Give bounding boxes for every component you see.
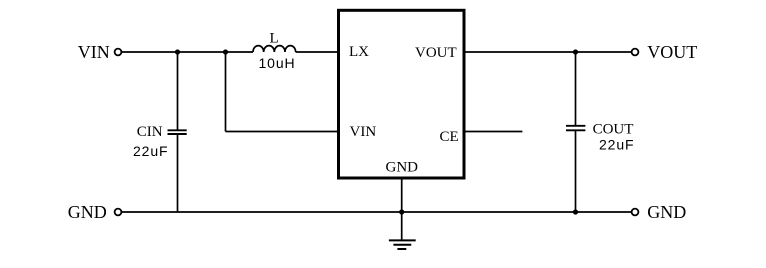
wire IC VIN branch vertical bbox=[225, 52, 227, 132]
wire IC VIN branch horizontal bbox=[226, 131, 339, 133]
wire VOUT pin to terminal bbox=[465, 51, 632, 53]
junction dot VOUT node at COUT bbox=[573, 49, 578, 54]
wire bottom GND rail bbox=[121, 211, 632, 213]
svg-text:GND: GND bbox=[68, 202, 107, 222]
svg-text:VOUT: VOUT bbox=[415, 45, 457, 61]
svg-text:GND: GND bbox=[386, 160, 419, 176]
node VIN terminal circle bbox=[115, 49, 122, 56]
svg-text:CIN: CIN bbox=[137, 124, 163, 140]
junction dot VIN node at IC VIN branch bbox=[223, 49, 228, 54]
node GND left terminal circle bbox=[115, 209, 122, 216]
inductor L1 bbox=[253, 46, 296, 52]
capacitor CIN bbox=[168, 129, 187, 131]
svg-text:22uF: 22uF bbox=[133, 143, 169, 159]
svg-text:VOUT: VOUT bbox=[647, 42, 697, 62]
junction dot VIN node at CIN bbox=[175, 49, 180, 54]
wire COUT bottom leg bbox=[575, 131, 577, 212]
svg-text:L: L bbox=[270, 31, 279, 47]
wire VIN terminal to inductor bbox=[121, 51, 253, 53]
node VOUT terminal circle bbox=[632, 49, 639, 56]
svg-text:CE: CE bbox=[440, 129, 459, 145]
svg-text:VIN: VIN bbox=[78, 42, 110, 62]
svg-text:22uF: 22uF bbox=[599, 137, 635, 153]
junction dot GND node at COUT bbox=[573, 209, 578, 214]
wire CE stub bbox=[465, 131, 522, 133]
wire CIN top leg bbox=[177, 52, 179, 130]
wire inductor to LX pin bbox=[296, 51, 338, 53]
wire GND pin vertical bbox=[401, 178, 403, 240]
junction dot GND node under IC bbox=[399, 209, 404, 214]
svg-text:VIN: VIN bbox=[350, 124, 377, 140]
svg-text:GND: GND bbox=[647, 202, 686, 222]
svg-text:10uH: 10uH bbox=[259, 55, 296, 71]
op-amp U1 IC body bbox=[339, 10, 465, 178]
svg-text:LX: LX bbox=[349, 44, 369, 60]
capacitor COUT bbox=[566, 125, 585, 127]
svg-text:COUT: COUT bbox=[593, 122, 634, 138]
node GND right terminal circle bbox=[632, 209, 639, 216]
ground symbol bbox=[389, 240, 416, 249]
wire CIN bottom leg bbox=[177, 135, 179, 213]
wire COUT top leg bbox=[575, 52, 577, 125]
